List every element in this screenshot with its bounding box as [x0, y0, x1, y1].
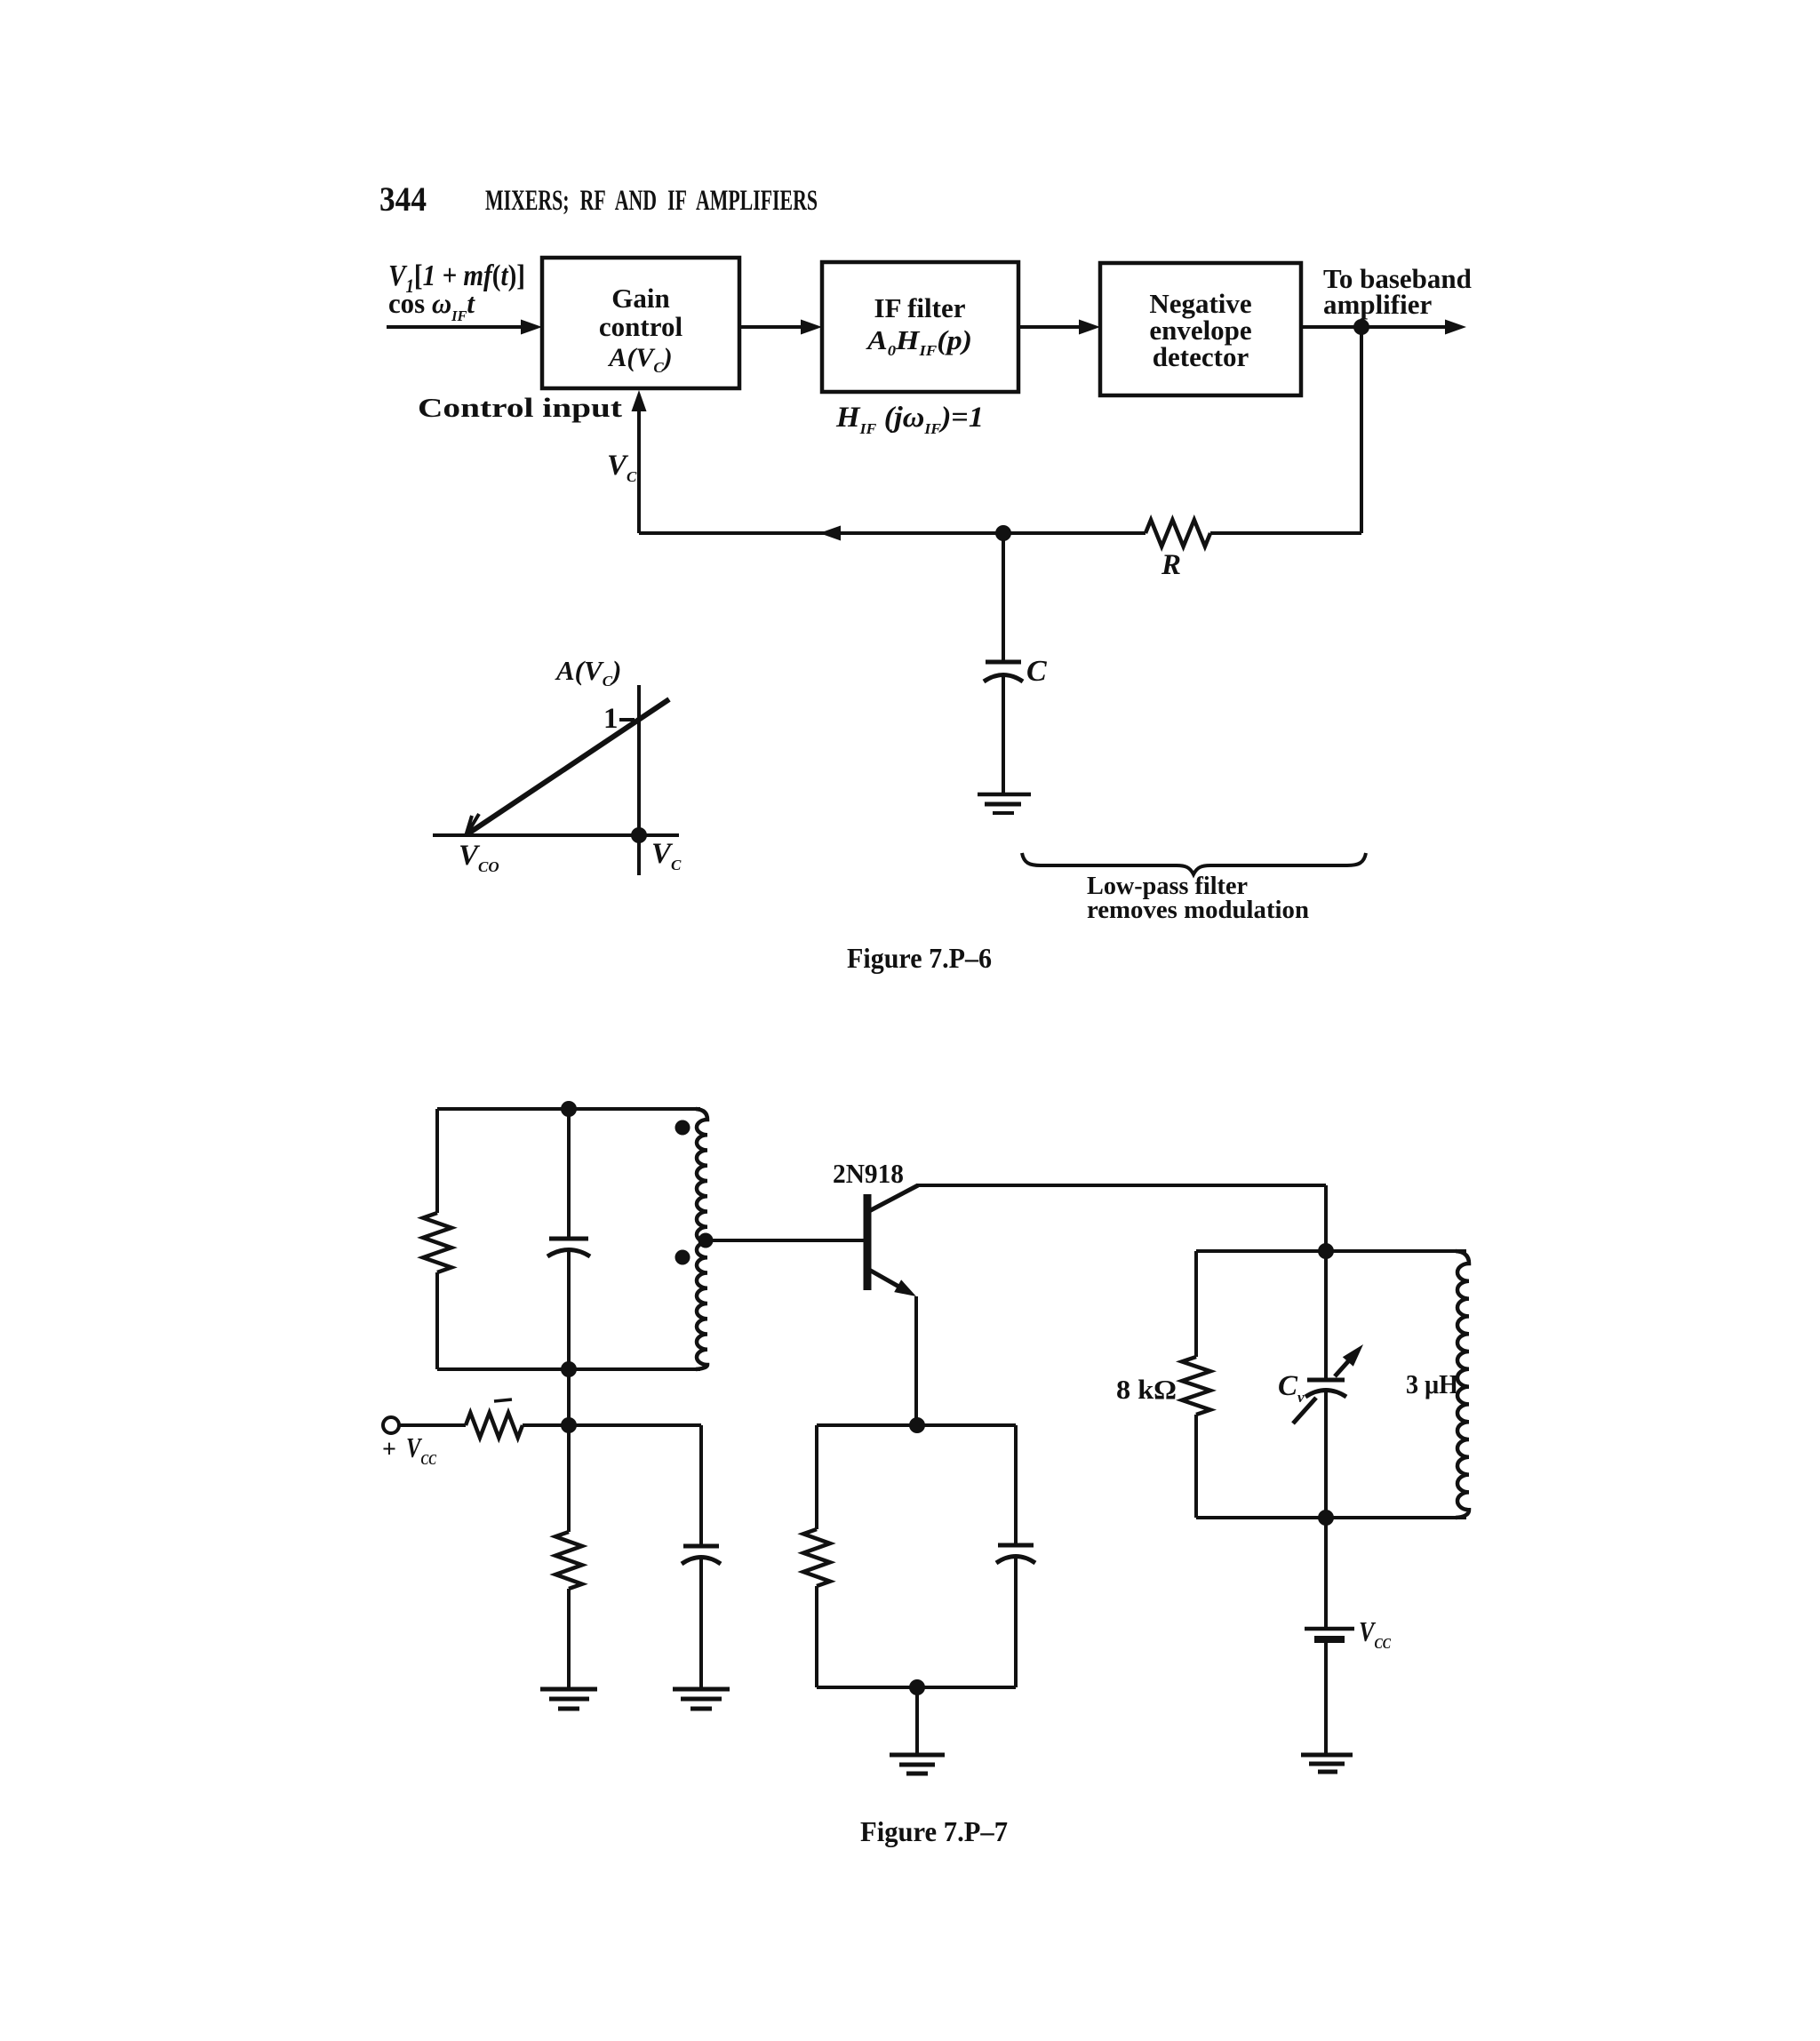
wire: emitter resistor upper lead	[815, 1425, 818, 1529]
svg-text:+: +	[382, 1436, 396, 1463]
svg-text:8 kΩ: 8 kΩ	[1116, 1374, 1177, 1405]
underbrace low-pass filter	[1022, 853, 1366, 874]
wire: bypass branch top	[569, 1423, 701, 1427]
wire: VCC feed left	[399, 1423, 466, 1427]
node: bias junction	[561, 1417, 577, 1433]
wire: collector run	[917, 1184, 1326, 1187]
node: tank top junction	[1318, 1243, 1334, 1259]
svg-text:3 μH: 3 μH	[1406, 1368, 1458, 1399]
wire: bias stack upper	[567, 1369, 571, 1532]
resistor R1 (tank damping)	[423, 1213, 451, 1272]
block: Negative envelope detector	[1100, 263, 1301, 395]
svg-text:VCO: VCO	[459, 840, 499, 875]
wire: Cv upper lead	[1324, 1251, 1328, 1379]
wire: feedback vertical drop	[1360, 327, 1363, 533]
svg-text:344: 344	[379, 180, 427, 219]
svg-text:Figure 7.P–7: Figure 7.P–7	[860, 1815, 1008, 1847]
terminal +VCC input	[383, 1417, 399, 1433]
wire: base lead	[708, 1239, 864, 1242]
transformer phasing dot upper	[675, 1120, 690, 1136]
svg-text:Figure 7.P–6: Figure 7.P–6	[847, 942, 992, 974]
inductor L1 3uH	[1456, 1251, 1469, 1518]
graph horizontal axis	[433, 833, 679, 837]
svg-text:Gain: Gain	[611, 283, 669, 314]
graph gain line with arrow end	[468, 699, 669, 833]
capacitor C1 (tank)	[549, 1237, 588, 1241]
svg-text:1: 1	[603, 703, 619, 735]
resistor R2 (VCC feed)	[466, 1413, 523, 1438]
svg-text:HIF (jωIF)=1: HIF (jωIF)=1	[835, 402, 984, 437]
wire: IF filter to detector	[1018, 325, 1088, 329]
wire: emitter network top	[817, 1423, 1016, 1427]
wire: feedback horizontal right segment	[1210, 531, 1361, 535]
wire: detector output to baseband amplifier	[1301, 325, 1452, 329]
wire: battery to ground	[1324, 1643, 1328, 1754]
capacitor C2 (bypass)	[683, 1544, 719, 1549]
arrow through Cv	[1293, 1398, 1316, 1423]
transformer phasing dot lower	[675, 1250, 690, 1265]
wire: emitter ground lead	[915, 1687, 919, 1755]
wire: feedback horizontal left segment	[1209, 531, 1212, 535]
wire: bias stack lower	[567, 1589, 571, 1689]
resistor R4 (emitter)	[803, 1529, 830, 1586]
svg-text:VC: VC	[607, 450, 637, 485]
node: tank bottom junction	[1318, 1510, 1334, 1526]
svg-text:R: R	[1161, 549, 1181, 581]
svg-text:VC: VC	[651, 838, 682, 873]
battery VCC	[1305, 1627, 1354, 1631]
wire: emitter drop	[914, 1296, 918, 1425]
node: emitter bottom junction	[909, 1679, 925, 1695]
wire: bypass cap upper lead	[699, 1425, 703, 1545]
svg-text:IF filter: IF filter	[874, 292, 966, 323]
capacitor C3 (emitter)	[998, 1543, 1034, 1548]
wire: gain control to IF filter	[739, 325, 810, 329]
transformer T1 winding	[696, 1109, 707, 1369]
capacitor Cv (variable)	[1307, 1378, 1345, 1383]
svg-text:2N918: 2N918	[833, 1158, 904, 1189]
graph tick 1	[619, 718, 635, 722]
resistor R	[1145, 520, 1210, 546]
svg-text:amplifier: amplifier	[1323, 289, 1432, 320]
svg-text:removes modulation: removes modulation	[1087, 896, 1309, 924]
wire: left tank bottom	[437, 1367, 700, 1371]
wire: emitter cap upper lead	[1014, 1425, 1018, 1544]
node: RC junction on feedback line	[995, 525, 1011, 541]
block: IF filter A0HIF(p)	[822, 262, 1018, 392]
wire: left tank left branch upper	[435, 1109, 439, 1213]
wire: output tank top	[1196, 1249, 1466, 1253]
polarity dash above R2	[494, 1399, 512, 1401]
wire: left tank top	[437, 1107, 700, 1111]
block: Gain control A(VC)	[542, 258, 739, 388]
wire: tank capacitor top lead	[567, 1109, 571, 1238]
wire: tank to battery	[1324, 1518, 1328, 1627]
ground for battery	[1301, 1753, 1353, 1758]
resistor R5 8 kOhm	[1182, 1357, 1210, 1415]
node: top tank junction	[561, 1101, 577, 1117]
wire: left tank left branch lower	[435, 1272, 439, 1369]
wire: VCC feed right	[523, 1423, 569, 1427]
svg-text:A(VC): A(VC)	[607, 343, 672, 376]
wire: emitter network bottom	[817, 1686, 1016, 1689]
ground for bypass capacitor	[673, 1687, 730, 1692]
ground for emitter network	[890, 1753, 945, 1758]
wire: 8k lower lead	[1194, 1415, 1198, 1518]
wire: emitter resistor lower lead	[815, 1586, 818, 1687]
wire: riser to control input	[637, 401, 641, 533]
svg-text:control: control	[599, 311, 683, 342]
svg-text:detector: detector	[1153, 341, 1249, 372]
svg-text:Cv: Cv	[1278, 1370, 1305, 1406]
ground for bias resistor	[540, 1687, 597, 1692]
node: emitter junction	[909, 1417, 925, 1433]
ground of low-pass filter	[978, 793, 1031, 797]
svg-text:MIXERS; RF AND IF AMPLIFIERS: MIXERS; RF AND IF AMPLIFIERS	[485, 185, 818, 217]
svg-text:cos ωIFt: cos ωIFt	[388, 287, 475, 324]
wire: output tank bottom	[1196, 1516, 1466, 1519]
svg-text:VCC: VCC	[406, 1431, 437, 1468]
wire: input line into gain control	[387, 325, 530, 329]
capacitor C of low-pass filter	[1002, 533, 1005, 661]
node: output junction	[1353, 319, 1369, 335]
transistor Q1 2N918	[864, 1194, 872, 1290]
wire: collector drop to tank	[1324, 1185, 1328, 1251]
node: graph origin dot	[631, 827, 647, 843]
graph vertical axis	[637, 685, 641, 875]
svg-text:C: C	[1026, 655, 1047, 688]
svg-text:VCC: VCC	[1359, 1615, 1392, 1652]
resistor R3 (bias lower)	[555, 1532, 582, 1589]
node: transformer tap	[698, 1233, 714, 1248]
node: bottom tank junction	[561, 1361, 577, 1377]
svg-text:A0HIF(p): A0HIF(p)	[866, 324, 972, 359]
svg-text:A(VC): A(VC)	[555, 655, 621, 690]
wire: 8k upper lead	[1194, 1251, 1198, 1357]
svg-text:Control input: Control input	[418, 392, 623, 423]
